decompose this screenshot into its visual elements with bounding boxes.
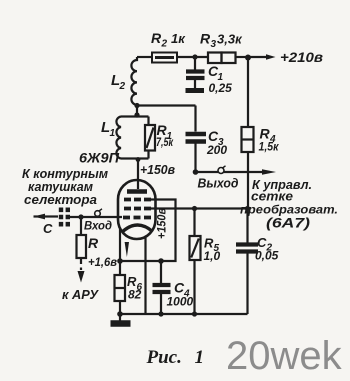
label to converter grid line2 [251, 190, 293, 204]
wire R3 to +210v node [236, 56, 249, 58]
wire top rail left segment [137, 56, 152, 58]
label +1.6v [88, 257, 117, 269]
svg-text:0,05: 0,05 [255, 249, 279, 263]
wire anode node to C3 [137, 104, 196, 106]
label C2 value [255, 235, 279, 263]
node R5 top junction [192, 206, 197, 211]
capacitor C2 [236, 209, 258, 315]
svg-text:1: 1 [195, 347, 205, 368]
label tube type 6Zh9P [79, 151, 119, 166]
svg-text:2: 2 [161, 39, 168, 50]
label to AGC [62, 287, 99, 302]
capacitor C input (dashed) [61, 208, 68, 227]
svg-text:С: С [43, 221, 53, 236]
label R3 value [200, 31, 243, 51]
svg-text:+150в: +150в [155, 208, 169, 239]
capacitor C3 [186, 106, 207, 173]
node R6 bottom junction [117, 311, 123, 317]
resistor R AGC [77, 217, 87, 258]
label C1 value [208, 63, 232, 95]
label R2 value [151, 30, 186, 50]
svg-text:200: 200 [206, 143, 227, 157]
svg-text:к АРУ: к АРУ [62, 287, 99, 302]
node L2 bottom junction [134, 103, 139, 108]
wire g3 to cathode rail [120, 200, 176, 262]
svg-text:+1,6в: +1,6в [88, 257, 117, 269]
node anode bracket junction [136, 157, 141, 162]
svg-text:преобразоват.: преобразоват. [240, 203, 338, 217]
ground C1 chassis bar [186, 88, 205, 93]
cathode current arrow [125, 242, 129, 257]
tube anode plate [127, 189, 147, 194]
tube U1 envelope 6Zh9P [118, 180, 156, 239]
label +150v screen vertical [155, 208, 169, 239]
wire +210v arrow [248, 54, 276, 60]
node C3 output junction [193, 169, 199, 175]
svg-text:1,5к: 1,5к [259, 140, 280, 154]
inductor L2 [131, 57, 137, 106]
label capacitor C input [43, 221, 53, 236]
tube cathode arc [122, 225, 153, 233]
label Vyhod output [198, 177, 239, 191]
node C4 top junction [158, 258, 164, 264]
node R4 top junction [245, 55, 251, 61]
label to converter grid line4 [266, 216, 311, 231]
tube grid g2 dashes [124, 207, 151, 211]
label to selector coils line3 [24, 192, 97, 207]
label +210v [280, 50, 323, 65]
svg-text:2: 2 [119, 81, 126, 92]
label Vhod input [84, 219, 112, 233]
svg-text:R: R [200, 31, 211, 47]
svg-text:3: 3 [211, 39, 217, 50]
svg-text:0,25: 0,25 [209, 81, 233, 95]
svg-text:3,3к: 3,3к [217, 32, 243, 47]
label resistor R AGC [88, 235, 99, 251]
wire bottom rail [120, 313, 248, 315]
label to selector coils line1 [22, 166, 108, 181]
label to converter grid line3 [240, 203, 338, 217]
wire cathode lead [119, 229, 121, 261]
ground [111, 314, 131, 324]
svg-text:6Ж9П: 6Ж9П [79, 151, 119, 166]
svg-text:Выход: Выход [198, 177, 239, 191]
label to selector coils line2 [28, 179, 93, 194]
svg-text:82: 82 [128, 288, 142, 302]
wire L2 to L1 top [136, 106, 138, 117]
wire AGC dashed arrow [78, 258, 85, 283]
resistor R4 [242, 57, 254, 209]
tube grid g3 dashes [124, 198, 151, 202]
label C4 value [167, 280, 194, 309]
node R5 bottom junction [192, 311, 197, 316]
svg-text:(6А7): (6А7) [266, 216, 311, 231]
resistor R5 [190, 209, 201, 315]
node input R junction [78, 214, 83, 219]
wire tube second lead [144, 237, 146, 314]
label R1 value [156, 122, 174, 149]
svg-text:сетке: сетке [251, 190, 293, 204]
wire output to converter arrow [196, 169, 277, 175]
resistor R6 [115, 261, 126, 314]
capacitor C1 [186, 57, 205, 88]
wire g2 screen to R4/C2 node [144, 207, 248, 209]
resistor R3 [208, 53, 236, 64]
wire input to grid [70, 216, 122, 218]
label L1 [101, 119, 116, 139]
label R4 value [259, 126, 280, 154]
svg-text:1,0: 1,0 [204, 249, 221, 263]
svg-text:Вход: Вход [84, 219, 112, 233]
svg-text:R: R [151, 30, 162, 46]
caption Ris. 1 [146, 347, 205, 368]
svg-text:1к: 1к [171, 31, 186, 46]
label L2 [111, 72, 126, 92]
node C1 top junction [192, 54, 197, 59]
svg-text:R: R [88, 235, 99, 251]
wire input arrow to selector [34, 214, 59, 220]
svg-text:Рис.: Рис. [146, 347, 182, 368]
label C3 value [206, 128, 227, 157]
label R6 value [127, 274, 143, 302]
svg-text:+150в: +150в [140, 163, 175, 177]
node screen R4 C2 junction [245, 206, 250, 211]
svg-text:селектора: селектора [24, 192, 97, 207]
inductor L1 [116, 117, 121, 159]
capacitor C4 [153, 261, 171, 314]
svg-text:+210в: +210в [280, 50, 323, 65]
resistor R2 [152, 53, 177, 63]
wire R2 to R3 [177, 56, 208, 58]
watermark 20wek [226, 334, 343, 378]
wire L1/R1 bottom bracket [121, 157, 149, 159]
node output terminal [218, 166, 226, 174]
node L1 top junction [134, 112, 139, 117]
label to converter grid line1 [252, 178, 312, 192]
node cathode rail junction [117, 258, 123, 264]
resistor R1 [145, 117, 155, 159]
wire anode stem [137, 159, 139, 190]
node input terminal [95, 209, 102, 217]
svg-text:7,5к: 7,5к [156, 135, 174, 149]
svg-text:1: 1 [110, 128, 116, 139]
label +150v anode [140, 163, 175, 177]
svg-text:20wek: 20wek [226, 334, 343, 378]
wire L1/R1 top bracket [121, 115, 149, 117]
node C4 bottom junction [158, 311, 163, 316]
label R5 value [204, 236, 221, 264]
svg-text:1000: 1000 [167, 295, 194, 309]
tube grid g1 dashes [123, 216, 151, 220]
